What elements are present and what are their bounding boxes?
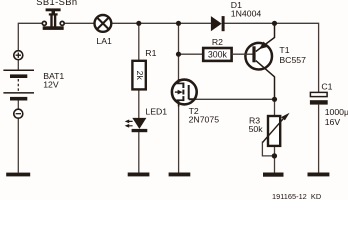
svg-text:16V: 16V: [325, 117, 341, 127]
MOSFET T2 2N7075: [172, 79, 197, 107]
pushbutton switch SB1-SBn: [42, 8, 64, 30]
wire D1 cathode to right corner, down to C1: [224, 23, 318, 92]
wire T2 source to ground: [178, 100, 180, 173]
wire R1 to LED1: [138, 89, 140, 118]
wire R3 wiper to bottom terminal: [262, 142, 274, 156]
gate bar and gate lead: [189, 85, 196, 99]
svg-text:191165-12 KD: 191165-12 KD: [272, 192, 321, 200]
wire battery plus circle to top plate: [17, 60, 19, 70]
node D junction (T1 collector / T2 gate / R3): [272, 97, 277, 102]
ground (C1): [308, 173, 330, 177]
svg-text:50k: 50k: [249, 124, 264, 134]
svg-text:C1: C1: [321, 81, 332, 91]
wire node C to R2 left: [179, 53, 204, 55]
base wire from R2: [232, 53, 253, 55]
ground (T2 source): [169, 173, 191, 177]
node B junction (D1 anode branch): [176, 21, 181, 26]
node C junction (R2 left): [176, 52, 181, 57]
wire node D down to R3: [274, 99, 276, 116]
lamp LA1: [95, 15, 112, 32]
svg-text:12V: 12V: [43, 79, 59, 89]
ground (LED1): [128, 173, 150, 177]
node E junction (T1 emitter / D1 cathode): [272, 21, 277, 26]
svg-text:1N4004: 1N4004: [231, 9, 262, 19]
node F junction (R3 wiper tie): [272, 153, 277, 158]
svg-text:R2: R2: [212, 37, 223, 47]
svg-text:LA1: LA1: [96, 36, 112, 46]
node A junction (lamp/R1): [136, 21, 141, 26]
svg-text:LED1: LED1: [145, 106, 167, 116]
channel bar segments: [182, 83, 184, 102]
wire battery minus to ground: [17, 118, 19, 172]
wire battery+ to switch (top-left corner): [18, 23, 41, 50]
drain lead inside: [175, 79, 183, 83]
source lead inside: [176, 100, 183, 106]
resistor R1: [132, 61, 145, 90]
wire node A down to R1: [138, 23, 140, 61]
wire R3 bottom to ground: [274, 146, 276, 173]
LED LED1: [125, 118, 148, 132]
svg-text:2k: 2k: [135, 71, 145, 81]
wire node B down to T2 drain: [178, 23, 180, 80]
emitter lead with arrow: [256, 23, 275, 51]
svg-text:1000µ: 1000µ: [325, 107, 348, 117]
wire lamp to D1 anode: [111, 22, 211, 24]
body arrow: [175, 91, 178, 93]
svg-text:2N7075: 2N7075: [189, 115, 220, 125]
transistor T1 BC557 (PNP): [232, 23, 275, 99]
svg-text:R1: R1: [145, 48, 156, 58]
collector lead: [256, 61, 275, 100]
ground (battery): [6, 173, 30, 177]
wire battery bottom plate to minus circle: [17, 101, 19, 110]
svg-text:T1: T1: [279, 45, 289, 55]
svg-text:SB1-SBn: SB1-SBn: [36, 0, 77, 7]
wire C1 to ground: [318, 105, 320, 173]
battery BAT1: [3, 51, 34, 119]
diode D1 1N4004: [211, 16, 225, 31]
wire LED1 cathode to ground: [138, 132, 140, 173]
capacitor C1: [310, 92, 328, 104]
svg-text:300k: 300k: [208, 50, 228, 60]
base bar: [252, 46, 255, 62]
ground (R3): [263, 173, 284, 177]
wire switch to lamp: [65, 22, 95, 24]
wire T2 gate to node D: [195, 98, 275, 100]
resistor R2: [203, 48, 231, 61]
potentiometer R3: [263, 113, 290, 146]
svg-text:BC557: BC557: [279, 55, 306, 65]
